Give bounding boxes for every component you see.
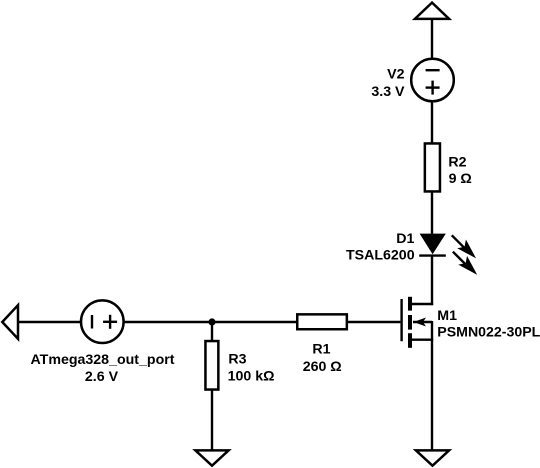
wire source to node A — [124, 321, 213, 323]
svg-text:R2: R2 — [448, 155, 466, 171]
wire R2 to D1 — [431, 193, 433, 237]
wire port to source — [18, 321, 81, 323]
label ATmega328_out_port — [30, 352, 174, 368]
svg-text:TSAL6200: TSAL6200 — [346, 248, 415, 264]
resistor R1 — [297, 314, 347, 329]
value PSMN022-30PL — [437, 324, 540, 340]
svg-text:ATmega328_out_port: ATmega328_out_port — [30, 352, 174, 368]
voltage source V2 — [411, 59, 454, 102]
value TSAL6200 — [346, 248, 415, 264]
LED emission arrow 2 — [453, 252, 476, 274]
ground (right) — [416, 450, 449, 465]
wire V2 to R2 — [431, 102, 433, 145]
value 260 ohm — [303, 359, 342, 375]
mosfet M1 — [402, 297, 434, 348]
ground (left) — [195, 450, 228, 465]
resistor R3 — [205, 341, 218, 390]
label R3 — [228, 351, 246, 367]
label V2 — [387, 67, 404, 83]
value 100 kohm — [228, 369, 275, 385]
label R2 — [448, 155, 466, 171]
wire R3 to ground — [211, 390, 213, 451]
svg-text:9 Ω: 9 Ω — [449, 171, 472, 187]
value 2.6 V — [85, 369, 119, 385]
value 9 ohm — [449, 171, 472, 187]
svg-text:260 Ω: 260 Ω — [303, 359, 342, 375]
label D1 — [396, 231, 414, 247]
wire node A to R1 — [212, 321, 298, 323]
port ATmega328_out_port (left) — [2, 305, 18, 339]
label M1 — [437, 308, 457, 324]
svg-text:M1: M1 — [437, 308, 457, 324]
svg-text:100 kΩ: 100 kΩ — [228, 369, 275, 385]
LED emission arrow 1 — [452, 235, 475, 257]
svg-text:R3: R3 — [228, 351, 246, 367]
wire node A to R3 — [211, 322, 213, 341]
svg-text:R1: R1 — [312, 342, 330, 358]
wire R1 to M1 gate — [347, 321, 401, 323]
wire D1 to M1 drain — [431, 256, 433, 306]
wire M1 source to ground — [431, 340, 433, 451]
svg-text:3.3 V: 3.3 V — [371, 84, 405, 100]
node A junction — [208, 318, 215, 325]
port VCC (top) — [415, 3, 449, 19]
voltage source ATmega328_out_port — [81, 300, 124, 343]
svg-text:PSMN022-30PL: PSMN022-30PL — [437, 324, 540, 340]
svg-text:D1: D1 — [396, 231, 414, 247]
value 3.3 V — [371, 84, 405, 100]
wire VCC to V2 — [431, 18, 433, 59]
LED D1 — [419, 234, 446, 256]
svg-text:2.6 V: 2.6 V — [85, 369, 119, 385]
svg-text:V2: V2 — [387, 67, 404, 83]
resistor R2 — [425, 143, 440, 191]
label R1 — [312, 342, 330, 358]
